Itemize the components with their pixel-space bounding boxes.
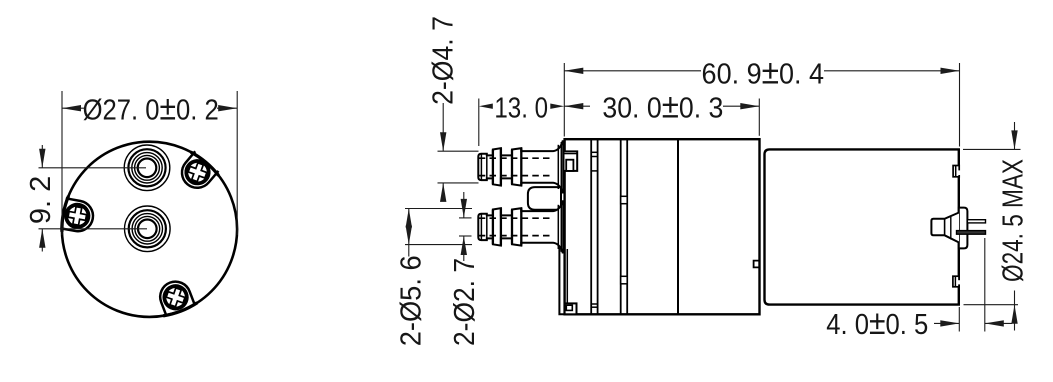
funnel inner line <box>944 219 946 236</box>
motor bearing funnel <box>931 213 959 243</box>
dim 4.0±0.5 line right <box>985 322 1012 324</box>
dim φ27.0±0.2 extension line left <box>61 91 63 235</box>
dim 13.0 arrow right <box>550 104 564 109</box>
barb B2 bore hidden line lower <box>479 235 554 237</box>
head diaphragm housing split line A <box>590 139 592 314</box>
bottom latch clip inner square <box>566 305 572 310</box>
dim 9.2 line below <box>41 229 43 252</box>
dim 2-φ2.7 tick top <box>459 217 472 219</box>
top latch clip step line <box>564 153 578 155</box>
terminal pin 2 <box>957 231 986 235</box>
dim 13.0 extension line left (barb tip) <box>478 99 480 147</box>
barb B2 tip shoulder line <box>486 214 488 240</box>
dim 30.0±0.3 line left <box>564 105 590 107</box>
dim φ27.0±0.2 line right <box>217 107 237 109</box>
screw S1 head ring <box>182 156 214 188</box>
dim 2-φ2.7 arrow up <box>461 236 467 255</box>
dim 30.0±0.3 arrow left <box>564 103 583 109</box>
svg-text:4. 0±0. 5: 4. 0±0. 5 <box>826 304 928 342</box>
head lower-left extra face line <box>566 249 568 303</box>
dim 2-φ4.7 line below <box>442 183 444 197</box>
top latch clip <box>564 151 578 171</box>
dim 30.0±0.3 arrow right <box>740 103 759 109</box>
motor crimp tab lower <box>953 276 960 287</box>
dim 4.0±0.5 extension line left (motor end face) <box>958 307 960 332</box>
dim 2-φ5.6 extension line bottom <box>405 244 472 246</box>
dim 4.0±0.5 line left <box>934 322 959 324</box>
dim 2-φ4.7 extension line bottom <box>438 182 479 184</box>
housing circle thickened arc at screw S3 <box>163 303 197 316</box>
dim φ24.5 MAX line bottom <box>1014 291 1016 331</box>
terminal pin 1 <box>967 220 985 223</box>
dim φ24.5 MAX line top <box>1014 122 1016 149</box>
barb B1 flare line A <box>557 145 559 189</box>
svg-text:9. 2: 9. 2 <box>25 176 57 224</box>
svg-text:Ø24. 5 MAX: Ø24. 5 MAX <box>998 159 1030 282</box>
port P1 (top) concentric rings <box>124 145 170 191</box>
dim 2-φ5.6 arrow up <box>406 209 412 228</box>
dim 9.2 line above <box>41 145 43 168</box>
dim 9.2 arrow down <box>39 149 45 168</box>
valve cover boss between barbs <box>528 187 561 210</box>
pump housing front circle <box>62 142 237 317</box>
dim 2-φ2.7 arrow down <box>461 199 467 218</box>
barb B2 ridge edge lines <box>492 210 494 245</box>
svg-text:60. 9±0. 4: 60. 9±0. 4 <box>702 53 825 91</box>
screw S3 pocket (bottom) <box>156 277 195 316</box>
dim 13.0 arrow left <box>479 104 493 109</box>
pump head lower-left face plate <box>559 246 564 314</box>
dim φ27.0±0.2 arrow right <box>218 105 237 111</box>
dim 2-φ2.7 tick bottom <box>459 235 472 237</box>
dim 9.2 arrow up <box>39 229 45 248</box>
svg-text:13. 0: 13. 0 <box>494 92 548 124</box>
dim 2-φ2.7 line above <box>463 192 465 218</box>
dim 2-φ4.7 extension line top <box>438 150 479 152</box>
motor endcap boss plate <box>959 208 968 249</box>
screw S3 head ring <box>161 283 190 312</box>
head housing split line C <box>620 139 622 314</box>
dim φ27.0±0.2 arrow left <box>62 105 81 111</box>
dim 2-φ4.7 arrow down <box>440 132 446 151</box>
screw S2 pocket (left) <box>60 198 95 233</box>
barb B1 ridge edge lines <box>492 150 494 185</box>
svg-text:2-Ø4. 7: 2-Ø4. 7 <box>428 16 460 105</box>
screw S2 cross recess <box>67 206 88 227</box>
housing circle thickened arc at screw S2 <box>62 196 69 232</box>
barb B1 flare line B <box>560 142 562 192</box>
split A-B rung top3 <box>591 170 597 172</box>
dim φ24.5 MAX arrow up <box>1011 305 1017 324</box>
dim 30.0±0.3 extension line right (head rear face) <box>758 99 760 136</box>
barb fitting B2 (bottom inlet) <box>478 201 563 252</box>
dim 9.2 extension line bottom (to port P2 center) <box>39 228 148 230</box>
dim 2-φ5.6 extension line top <box>405 208 472 210</box>
dim φ24.5 MAX extension line top <box>963 148 1021 150</box>
barb B1 tip shoulder line <box>486 154 488 180</box>
split A-B rung bottom2 <box>591 306 597 308</box>
funnel mid line <box>950 216 952 239</box>
dim 30.0±0.3 line right <box>723 105 759 107</box>
dim 60.9±0.4 extension line left (head front face) <box>563 63 565 137</box>
svg-text:2-Ø5. 6: 2-Ø5. 6 <box>396 255 428 346</box>
dim 4.0±0.5 arrow into pin tip <box>985 320 1004 326</box>
barb fitting B1 (top outlet) <box>478 141 563 192</box>
dim φ24.5 MAX arrow down <box>1011 130 1017 149</box>
head-to-bracket split line E <box>677 139 679 314</box>
dim 60.9±0.4 extension line right (motor end face) <box>959 63 961 147</box>
screw S3 cross recess <box>164 286 187 309</box>
barb B2 flare line B <box>560 202 562 252</box>
barb B1 bore hidden line lower <box>479 175 554 177</box>
dim φ27.0±0.2 line left <box>62 107 85 109</box>
svg-text:Ø27. 0±0. 2: Ø27. 0±0. 2 <box>83 89 219 127</box>
svg-text:30. 0±0. 3: 30. 0±0. 3 <box>602 87 723 125</box>
housing circle thickened arc at screw S1 <box>191 152 219 175</box>
dim 4.0±0.5 extension line right (pin tip) <box>984 238 986 332</box>
dim 60.9±0.4 arrow right <box>941 68 960 74</box>
split A-B rung top1 <box>591 151 597 153</box>
dim 2-φ5.6 arrow down <box>406 226 412 245</box>
screw S2 head ring <box>64 203 90 229</box>
motor body <box>765 149 959 304</box>
split C-D clamp jog upper <box>621 196 628 203</box>
dim φ24.5 MAX extension line bottom <box>964 304 1019 306</box>
screw S1 pocket (top right) <box>176 151 219 194</box>
dim 9.2 extension line top (to port P1 center) <box>39 167 147 169</box>
split C-D clamp jog lower <box>621 276 628 284</box>
split A-B rung bottom1 <box>591 303 597 305</box>
screw S1 cross recess <box>186 161 209 184</box>
barb B1 tip end line <box>480 154 482 180</box>
dim 2-φ4.7 line above <box>442 103 444 151</box>
head housing split line D <box>626 139 628 314</box>
barb B2 flare line A <box>557 205 559 249</box>
dim 2-φ2.7 line below <box>463 236 465 261</box>
dim 2-φ4.7 arrow up <box>440 183 446 202</box>
split A-B rung top2 <box>591 156 597 158</box>
bottom latch clip <box>565 303 577 314</box>
head rear mounting tab <box>754 261 760 268</box>
dim 60.9±0.4 arrow left <box>564 68 583 74</box>
dim 60.9±0.4 line right <box>824 70 960 72</box>
dim 4.0±0.5 arrow into face <box>940 320 959 326</box>
barb B1 bore hidden line upper <box>479 157 554 159</box>
dim 60.9±0.4 line left <box>564 70 701 72</box>
port P2 (bottom) concentric rings <box>125 206 171 252</box>
pump head body <box>565 139 760 314</box>
svg-text:2-Ø2. 7: 2-Ø2. 7 <box>449 258 481 346</box>
head diaphragm housing split line B <box>597 139 599 314</box>
motor crimp tab upper <box>953 166 960 177</box>
top latch clip inner square <box>566 160 573 171</box>
dim φ27.0±0.2 extension line right <box>236 91 238 235</box>
dim 2-φ5.6 line <box>408 209 410 257</box>
barb B2 bore hidden line upper <box>479 217 554 219</box>
barb B2 tip end line <box>480 214 482 240</box>
